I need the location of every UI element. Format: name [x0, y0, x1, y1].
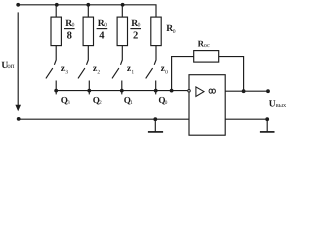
svg-text:вых: вых: [276, 102, 287, 109]
svg-text:оп: оп: [7, 62, 15, 70]
label z3: [61, 64, 69, 75]
node: bottom-left terminal: [17, 117, 21, 121]
svg-text:3: 3: [67, 100, 70, 106]
op-amp triangle symbol: [196, 87, 204, 97]
node: right ground tap: [265, 117, 269, 121]
op-amp inverting input circle: [188, 90, 191, 93]
label R0: [166, 23, 176, 35]
svg-text:3: 3: [65, 69, 68, 75]
fraction bar R0/2: [130, 28, 141, 30]
wire: feedback right branch: [219, 57, 244, 92]
node: feedback tap on bus: [170, 89, 174, 93]
node: bus column 3: [120, 89, 124, 93]
op-amp U1 body: [189, 75, 225, 136]
switch z2: [78, 46, 88, 79]
node: output terminal: [266, 89, 270, 93]
label Q0: [158, 95, 167, 106]
fraction bar R0/8: [64, 28, 75, 30]
label Q1: [124, 95, 133, 106]
svg-text:8: 8: [67, 30, 72, 41]
label z0: [161, 64, 169, 75]
svg-text:1: 1: [131, 69, 134, 75]
contact tick Q0: [155, 81, 157, 95]
ground left: [148, 119, 163, 132]
node: top column 3: [121, 3, 125, 7]
label Uvyh: [269, 99, 287, 109]
wire: feedback left branch: [172, 57, 194, 91]
node: bus column 1: [54, 89, 58, 93]
node: top column 2: [86, 3, 90, 7]
svg-text:U: U: [269, 99, 276, 109]
node: feedback to output junction: [242, 89, 246, 93]
contact tick Q3: [55, 81, 57, 95]
resistor R0/4: [83, 17, 93, 45]
wire: Uop vertical rail with gap: [17, 12, 19, 107]
label R0/8: [65, 18, 74, 42]
node: rail left end: [16, 3, 20, 7]
ground right: [260, 119, 275, 132]
svg-text:2: 2: [97, 69, 100, 75]
svg-text:0: 0: [72, 22, 75, 28]
node: left ground tap: [153, 117, 157, 121]
svg-text:ос: ос: [204, 42, 210, 49]
svg-text:0: 0: [165, 100, 168, 106]
resistor R0/2: [117, 17, 127, 45]
contact tick Q1: [121, 81, 123, 95]
fraction bar R0/4: [97, 28, 108, 30]
resistor R0: [151, 17, 161, 45]
svg-text:0: 0: [138, 22, 141, 28]
node: top column 1: [55, 3, 59, 7]
svg-text:0: 0: [104, 22, 107, 28]
label z1: [127, 64, 134, 75]
svg-text:2: 2: [133, 30, 138, 41]
svg-text:1: 1: [130, 100, 133, 106]
wire: stub top column 1: [55, 5, 57, 17]
label R0/2: [131, 18, 140, 42]
label Q3: [61, 95, 70, 106]
wire: op-amp output: [225, 90, 268, 92]
label z2: [93, 64, 101, 75]
label Q2: [93, 95, 102, 106]
resistor R0/8: [51, 17, 61, 45]
op-amp infinity symbol: [209, 89, 215, 93]
svg-text:0: 0: [173, 29, 176, 35]
wire: ground return bottom: [19, 118, 189, 120]
label R0/4: [98, 18, 107, 42]
switch z1: [112, 46, 122, 79]
contact tick Q2: [88, 81, 90, 95]
node: bus column 4: [154, 89, 158, 93]
node: bus column 2: [87, 89, 91, 93]
switch z3: [46, 46, 56, 79]
arrow: Uop rail down arrowhead: [15, 105, 21, 112]
resistor Roc: [194, 51, 219, 63]
wire: stub top column 3: [121, 5, 123, 17]
label Roc: [198, 38, 210, 49]
wire: top reference rail: [18, 5, 156, 17]
wire: op-amp lower right to ground: [225, 118, 267, 120]
label Uop: [1, 61, 14, 71]
svg-text:4: 4: [99, 30, 105, 41]
svg-text:0: 0: [165, 69, 168, 75]
wire: summing bus to inverting input: [56, 90, 187, 92]
svg-text:2: 2: [99, 100, 102, 106]
switch z0: [146, 46, 156, 79]
wire: stub top column 2: [87, 5, 89, 17]
